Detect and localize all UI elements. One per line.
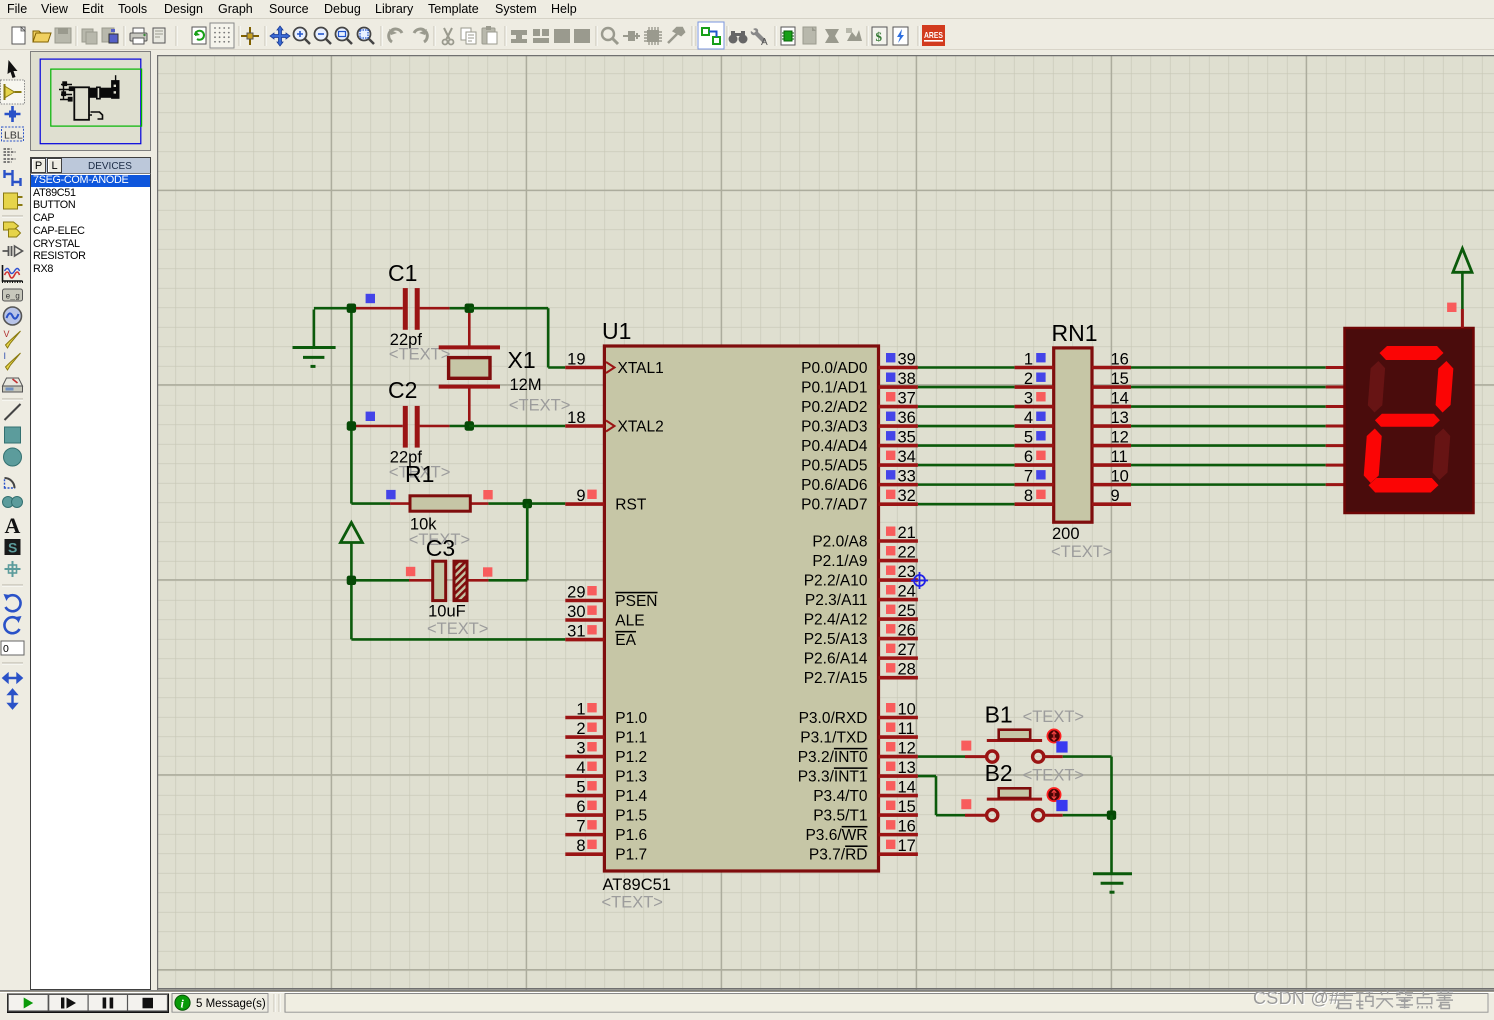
svg-text:P1.0: P1.0	[615, 710, 647, 727]
RN1 pin 5	[1015, 429, 1054, 447]
svg-text:11: 11	[1111, 448, 1128, 466]
svg-text:200: 200	[1052, 525, 1080, 543]
RN1 pin 11	[1092, 448, 1131, 466]
svg-text:34: 34	[898, 448, 916, 466]
wire B1 to ground rail	[1063, 755, 1112, 758]
wire P0.2 to RN1 pin 3	[918, 405, 1015, 408]
svg-text:P1.5: P1.5	[615, 807, 647, 824]
svg-text:14: 14	[898, 779, 916, 797]
svg-text:15: 15	[898, 798, 916, 816]
RN1 pin 7	[1015, 468, 1054, 486]
svg-text:15: 15	[1111, 370, 1129, 388]
svg-text:29: 29	[567, 584, 585, 602]
pin 26 (P2.5/A13)	[804, 622, 918, 648]
svg-text:21: 21	[898, 524, 916, 542]
devices panel	[30, 157, 151, 990]
pin 12 (None)	[798, 740, 918, 766]
pin 23 (P2.2/A10)	[804, 563, 918, 589]
svg-text:12: 12	[1111, 429, 1129, 447]
RN1 pin 16	[1092, 351, 1131, 369]
svg-text:18: 18	[567, 409, 585, 427]
pin 1 (P1.0)	[565, 701, 647, 727]
RN1 pin 1	[1015, 351, 1054, 369]
svg-text:<TEXT>: <TEXT>	[1051, 543, 1112, 561]
svg-text:35: 35	[898, 429, 916, 447]
wire P0.0 to RN1 pin 1	[918, 366, 1015, 369]
svg-text:<TEXT>: <TEXT>	[1023, 708, 1084, 726]
svg-text:ALE: ALE	[615, 612, 644, 629]
ground (bottom GND symbol)	[1093, 872, 1132, 875]
svg-text:3: 3	[576, 740, 585, 758]
pin 35 (P0.4/AD4)	[801, 429, 918, 455]
toolbar	[0, 19, 1494, 50]
wire RN1 pin 15 to display	[1131, 386, 1326, 389]
svg-text:7: 7	[576, 818, 585, 836]
pin 8 (P1.7)	[565, 837, 647, 863]
svg-text:32: 32	[898, 487, 916, 505]
watermark	[1253, 988, 1483, 1012]
RN1 pin 2	[1015, 370, 1054, 388]
svg-text:10uF: 10uF	[428, 603, 466, 621]
capacitor C3 (electrolytic)	[409, 561, 488, 600]
pin 10 (P3.0/RXD)	[799, 701, 918, 727]
pin 38 (P0.1/AD1)	[801, 370, 918, 396]
pin 39 (P0.0/AD0)	[801, 351, 918, 377]
pin 29 (None)	[565, 584, 657, 610]
svg-text:P0.4/AD4: P0.4/AD4	[801, 438, 868, 455]
svg-text:I: I	[4, 351, 7, 361]
wire RN1 pin 12 to display	[1131, 444, 1326, 447]
left tool column	[0, 50, 33, 990]
svg-text:7: 7	[1024, 468, 1033, 486]
svg-text:P1.3: P1.3	[615, 768, 647, 785]
svg-text:P2.6/A14: P2.6/A14	[804, 650, 868, 667]
svg-text:P3.7/RD: P3.7/RD	[809, 846, 868, 863]
pin 4 (P1.3)	[565, 759, 647, 785]
svg-text:28: 28	[898, 661, 916, 679]
menu bar	[0, 0, 1494, 19]
svg-text:R1: R1	[405, 461, 434, 487]
wire VCC to display pin	[1461, 272, 1464, 309]
svg-text:P3.3/INT1: P3.3/INT1	[798, 768, 868, 785]
svg-text:16: 16	[1111, 351, 1129, 369]
svg-text:B2: B2	[985, 760, 1013, 786]
bottom bar	[0, 990, 1494, 1014]
svg-text:X1: X1	[508, 347, 536, 373]
segment a (lit)	[1379, 346, 1444, 360]
pin 25 (P2.4/A12)	[804, 602, 918, 628]
svg-text:U1: U1	[602, 318, 631, 344]
svg-text:P2.0/A8: P2.0/A8	[812, 533, 867, 550]
RN1 pin 10	[1092, 468, 1131, 486]
pin 7 (P1.6)	[565, 818, 647, 844]
svg-text:13: 13	[898, 759, 916, 777]
7-segment display (7SEG-COM-ANODE)	[1326, 328, 1474, 513]
svg-text:16: 16	[898, 818, 916, 836]
node: junction X1 bottom / XTAL2 net	[465, 421, 474, 430]
svg-text:A: A	[761, 37, 768, 48]
svg-text:P2.5/A13: P2.5/A13	[804, 631, 868, 648]
svg-text:C3: C3	[426, 535, 455, 561]
svg-text:38: 38	[898, 370, 916, 388]
wire P0.4 to RN1 pin 5	[918, 444, 1015, 447]
wire VCC rail to C3	[351, 579, 409, 582]
segment c (unlit)	[1432, 429, 1451, 481]
svg-text:6: 6	[576, 798, 585, 816]
pin 6 (P1.5)	[565, 798, 647, 824]
segment e (lit)	[1363, 429, 1382, 484]
pin 22 (P2.1/A9)	[812, 544, 918, 570]
node: C1/C2/R1 ground rail (vertical wire)	[350, 308, 353, 503]
wire XTAL2 net to pin 18	[469, 425, 565, 428]
wire P3.3 to B2	[918, 775, 936, 778]
svg-text:P2.1/A9: P2.1/A9	[812, 553, 867, 570]
wire P0.7 to RN1 pin 8	[918, 503, 1015, 506]
wire P3.2 to B1	[918, 755, 965, 758]
svg-text:8: 8	[576, 837, 585, 855]
svg-text:13: 13	[1111, 409, 1129, 427]
svg-text:17: 17	[898, 837, 916, 855]
RN1 pin 12	[1092, 429, 1131, 447]
RN1 pin 9	[1092, 487, 1131, 505]
svg-text:P3.4/T0: P3.4/T0	[813, 788, 868, 805]
svg-text:P1.4: P1.4	[615, 788, 647, 805]
segment f (unlit)	[1367, 361, 1385, 413]
wire P0.5 to RN1 pin 6	[918, 464, 1015, 467]
RN1 pin 14	[1092, 390, 1131, 408]
pin 28 (P2.7/A15)	[804, 661, 918, 687]
svg-text:22: 22	[898, 544, 916, 562]
svg-text:25: 25	[898, 602, 916, 620]
segment d (lit)	[1368, 478, 1439, 493]
svg-text:10: 10	[1111, 468, 1129, 486]
svg-text:P0.0/AD0: P0.0/AD0	[801, 360, 868, 377]
svg-text:V: V	[4, 329, 10, 339]
op-amp/micro U1 AT89C51 body	[604, 346, 878, 871]
pin 27 (P2.6/A14)	[804, 641, 918, 667]
RN1 pin 8	[1015, 487, 1054, 505]
pin 31 (None)	[565, 623, 636, 649]
svg-text:<TEXT>: <TEXT>	[1023, 767, 1084, 785]
svg-text:3: 3	[1024, 390, 1033, 408]
wire P0.6 to RN1 pin 7	[918, 483, 1015, 486]
wire RN1 pin 14 to display	[1131, 405, 1326, 408]
pin 33 (P0.6/AD6)	[801, 468, 918, 494]
pin 15 (P3.5/T1)	[813, 798, 918, 824]
svg-text:23: 23	[898, 563, 916, 581]
pin 30 (ALE)	[565, 603, 644, 629]
svg-text:12: 12	[898, 740, 916, 758]
svg-text:AT89C51: AT89C51	[603, 876, 671, 894]
svg-text:P3.2/INT0: P3.2/INT0	[798, 749, 868, 766]
RN1 pin 4	[1015, 409, 1054, 427]
pin 2 (P1.1)	[565, 720, 647, 746]
svg-text:33: 33	[898, 468, 916, 486]
svg-text:P0.3/AD3: P0.3/AD3	[801, 418, 867, 435]
svg-text:5: 5	[576, 779, 585, 797]
svg-text:ARES: ARES	[924, 30, 943, 40]
svg-text:A: A	[5, 513, 21, 538]
pin 17 (None)	[809, 837, 918, 863]
pin 16 (None)	[805, 818, 917, 844]
transistor-like push button B2	[965, 788, 1063, 821]
pin 37 (P0.2/AD2)	[801, 390, 918, 416]
pin 18 (XTAL2)	[565, 409, 663, 435]
pin 36 (P0.3/AD3)	[801, 409, 918, 435]
wire P0.3 to RN1 pin 4	[918, 425, 1015, 428]
svg-text:P3.1/TXD: P3.1/TXD	[800, 729, 867, 746]
RN1 pin 6	[1015, 448, 1054, 466]
capacitor C2	[351, 406, 469, 448]
crystal X1	[439, 308, 500, 426]
svg-text:P0.5/AD5: P0.5/AD5	[801, 457, 867, 474]
wire RN1 pin 11 to display	[1131, 464, 1326, 467]
RN1 pin 15	[1092, 370, 1131, 388]
pin 32 (P0.7/AD7)	[801, 487, 918, 513]
node: junction VCC/C3	[347, 576, 356, 585]
svg-text:PSEN: PSEN	[615, 593, 657, 610]
svg-text:1: 1	[576, 701, 585, 719]
svg-text:<TEXT>: <TEXT>	[602, 894, 663, 912]
wire gnd to C1 junction	[314, 307, 352, 310]
wire RN1 pin 16 to display	[1131, 366, 1326, 369]
svg-text:P3.6/WR: P3.6/WR	[805, 827, 867, 844]
svg-text:P3.5/T1: P3.5/T1	[813, 807, 867, 824]
segment g (lit)	[1374, 414, 1440, 427]
capacitor C1	[351, 288, 469, 330]
svg-text:1: 1	[1024, 351, 1033, 369]
svg-text:<TEXT>: <TEXT>	[427, 620, 488, 638]
svg-text:12M: 12M	[510, 376, 542, 394]
wire VCC rail	[350, 543, 353, 640]
wire RST junction down to C3	[526, 504, 529, 581]
svg-text:P1.6: P1.6	[615, 827, 647, 844]
svg-text:C2: C2	[388, 377, 417, 403]
wire RN1 pin 10 to display	[1131, 483, 1326, 486]
svg-text:P1.2: P1.2	[615, 749, 647, 766]
svg-text:4: 4	[576, 759, 585, 777]
svg-text:0: 0	[3, 643, 9, 655]
svg-text:P0.1/AD1: P0.1/AD1	[801, 379, 867, 396]
svg-text:11: 11	[898, 720, 915, 738]
pin 5 (P1.4)	[565, 779, 647, 805]
power terminal VCC (left)	[341, 523, 363, 543]
svg-text:P0.2/AD2: P0.2/AD2	[801, 399, 867, 416]
RN1 pin 3	[1015, 390, 1054, 408]
svg-text:37: 37	[898, 390, 916, 408]
svg-text:P2.7/A15: P2.7/A15	[804, 670, 868, 687]
svg-text:C1: C1	[388, 260, 417, 286]
svg-text:P2.4/A12: P2.4/A12	[804, 611, 868, 628]
svg-text:5 Message(s): 5 Message(s)	[196, 998, 266, 1010]
wire VCC rail to EA pin 31	[351, 638, 565, 641]
wire B2 to ground	[1063, 814, 1112, 817]
wire P0.1 to RN1 pin 2	[918, 386, 1015, 389]
pin 19 (XTAL1)	[565, 351, 663, 377]
svg-text:19: 19	[567, 351, 585, 369]
svg-text:EA: EA	[615, 632, 636, 649]
node: junction B1/B2/gnd	[1107, 811, 1116, 820]
svg-text:26: 26	[898, 622, 916, 640]
svg-text:RN1: RN1	[1052, 320, 1098, 346]
svg-text:14: 14	[1111, 390, 1129, 408]
svg-text:9: 9	[576, 487, 585, 505]
pin 14 (P3.4/T0)	[813, 779, 918, 805]
svg-text:39: 39	[898, 351, 916, 369]
svg-text:27: 27	[898, 641, 916, 659]
resistor R1	[390, 496, 488, 511]
wire R1 to RST pin 9	[488, 502, 565, 505]
svg-text:36: 36	[898, 409, 916, 427]
svg-text:e_g: e_g	[6, 293, 21, 302]
svg-text:P0.6/AD6: P0.6/AD6	[801, 477, 867, 494]
svg-text:B1: B1	[985, 702, 1013, 728]
resistor network RN1	[1054, 348, 1092, 522]
svg-text:31: 31	[567, 623, 585, 641]
svg-text:P2.2/A10: P2.2/A10	[804, 572, 868, 589]
node A: junction C1/gnd	[347, 304, 356, 313]
display anode pin	[1461, 309, 1464, 328]
svg-text:4: 4	[1024, 409, 1033, 427]
svg-text:P1.7: P1.7	[615, 846, 647, 863]
svg-text:8: 8	[1024, 487, 1033, 505]
svg-text:30: 30	[567, 603, 585, 621]
svg-text:5: 5	[1024, 429, 1033, 447]
svg-text:RST: RST	[615, 496, 647, 513]
node: junction X1 top / XTAL1 net	[465, 304, 474, 313]
pin 11 (P3.1/TXD)	[800, 720, 918, 746]
wire rail to R1	[351, 502, 390, 505]
svg-text:2: 2	[576, 720, 585, 738]
svg-text:XTAL2: XTAL2	[618, 418, 664, 435]
svg-text:LBL: LBL	[4, 130, 23, 142]
mouse cursor crosshair	[911, 572, 928, 589]
svg-text:6: 6	[1024, 448, 1033, 466]
pin 21 (P2.0/A8)	[812, 524, 918, 550]
RN1 pin 13	[1092, 409, 1131, 427]
svg-text:CSDN @#: CSDN @#	[1253, 988, 1339, 1008]
svg-text:S: S	[8, 540, 17, 556]
pin 34 (P0.5/AD5)	[801, 448, 918, 474]
wire RN1 pin 13 to display	[1131, 425, 1326, 428]
svg-text:P0.7/AD7: P0.7/AD7	[801, 496, 867, 513]
svg-text:10: 10	[898, 701, 916, 719]
node: junction RST/C3	[523, 499, 532, 508]
segment b (lit)	[1435, 361, 1454, 413]
svg-text:P1.1: P1.1	[615, 729, 647, 746]
svg-text:9: 9	[1111, 487, 1120, 505]
preview / overview window	[30, 51, 151, 151]
svg-text:XTAL1: XTAL1	[618, 360, 664, 377]
pin 3 (P1.2)	[565, 740, 647, 766]
node: junction C2/rail	[347, 421, 356, 430]
power terminal VCC (display anode)	[1453, 249, 1472, 273]
wire XTAL1 net to pin 19	[469, 307, 548, 310]
pin 9 (RST)	[565, 487, 647, 513]
ground (top-left GND symbol)	[313, 310, 316, 348]
svg-text:P3.0/RXD: P3.0/RXD	[799, 710, 868, 727]
svg-text:<TEXT>: <TEXT>	[509, 397, 570, 415]
pin 13 (None)	[798, 759, 918, 785]
svg-text:2: 2	[1024, 370, 1033, 388]
svg-text:P2.3/A11: P2.3/A11	[805, 592, 868, 609]
svg-text:$: $	[876, 29, 883, 44]
pin 24 (P2.3/A11)	[805, 583, 918, 609]
transistor-like push button B1	[965, 729, 1063, 762]
svg-text:24: 24	[898, 583, 916, 601]
